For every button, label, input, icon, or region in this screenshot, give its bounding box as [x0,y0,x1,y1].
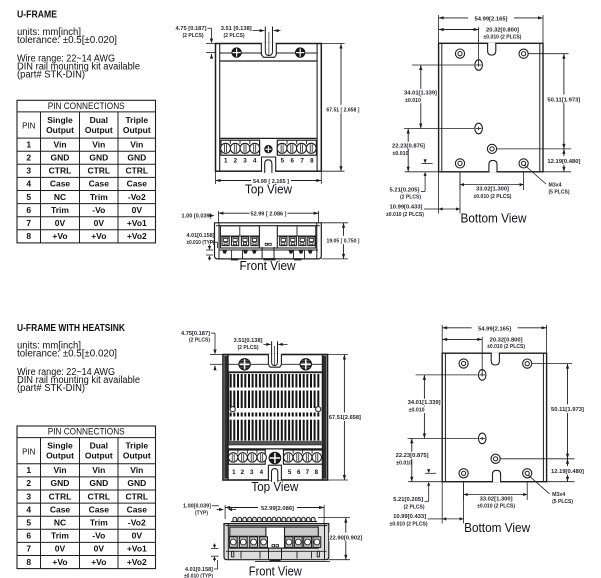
svg-text:3: 3 [250,469,254,476]
svg-text:8: 8 [310,157,314,164]
front view A terminal top strip [220,235,259,237]
svg-text:2: 2 [234,157,238,164]
top view B left rail [224,356,227,479]
bottom view slot hole lower [478,433,486,444]
bottom view mounting hole center [491,454,500,463]
dim 20.32 bottom view [478,27,480,65]
table data rows [17,150,156,152]
top view A right rail [316,44,318,172]
top view B terminal screws 1-4 [229,453,238,462]
svg-text:CTRL: CTRL [125,491,148,501]
svg-text:±0.010 (2 PLCS): ±0.010 (2 PLCS) [386,212,424,218]
svg-text:5: 5 [26,192,31,202]
bottom view mounting hole top-right [519,49,528,58]
top view B flange line [228,363,268,365]
svg-text:6: 6 [26,531,31,541]
dim 5.21 bottom view [425,472,436,474]
dim 10.99 bottom view [438,172,440,214]
bottom view inner edge lines [444,353,446,482]
front view B terminal strip lines [230,535,266,537]
svg-text:±0.010: ±0.010 [405,98,421,104]
svg-text:22.90[0.902]: 22.90[0.902] [329,535,362,541]
top view A flange line [220,52,263,54]
M3x4 callout [528,475,550,494]
svg-text:CTRL: CTRL [125,166,148,176]
svg-text:Output: Output [123,451,151,461]
svg-text:4: 4 [253,157,257,164]
svg-text:CTRL: CTRL [49,491,72,501]
svg-text:Dual: Dual [90,115,108,125]
top view A terminal screws 5-8 [277,143,287,153]
svg-text:Single: Single [47,115,73,125]
svg-text:2: 2 [26,153,31,163]
svg-text:±0.010 (TYP): ±0.010 (TYP) [187,240,215,246]
top view A screw left [232,48,242,58]
svg-text:Trim: Trim [51,205,69,215]
svg-text:(part# STK-DIN): (part# STK-DIN) [17,383,85,394]
dim 22.23 bottom view [405,171,439,173]
svg-text:0V: 0V [132,205,143,215]
svg-text:±0.010 (2 PLCS): ±0.010 (2 PLCS) [487,344,525,350]
svg-text:54.99[2.165]: 54.99[2.165] [475,16,508,22]
svg-text:12.19[0.480]: 12.19[0.480] [551,469,584,475]
top view B top strip line [228,371,323,373]
front view B center gap [266,528,284,548]
svg-text:(part# STK-DIN): (part# STK-DIN) [17,70,85,81]
top view B heatsink fins [230,374,232,388]
svg-text:+Vo: +Vo [52,231,67,241]
svg-text:20.32[0.800]: 20.32[0.800] [486,28,519,34]
bottom view bottom notch [490,170,497,172]
svg-text:4.01[0.158]: 4.01[0.158] [187,233,215,239]
svg-text:NC: NC [54,192,66,202]
svg-text:5.21[0.205]: 5.21[0.205] [390,187,420,193]
svg-text:Trim: Trim [51,531,69,541]
front view A terminal housing [220,226,315,248]
dim 22.23 bottom view [408,481,442,483]
svg-text:10.99[0.433]: 10.99[0.433] [393,514,426,520]
svg-text:(2 PLCS): (2 PLCS) [400,195,421,201]
top view A terminal block right [277,140,316,155]
svg-text:GND: GND [51,153,70,163]
bottom view bottom notch [493,480,500,482]
svg-text:Vin: Vin [53,139,66,149]
svg-text:U-FRAME: U-FRAME [17,9,57,21]
top view A screw right [295,48,305,58]
svg-text:4: 4 [26,504,31,514]
svg-text:7: 7 [300,157,304,164]
svg-text:5: 5 [288,469,292,476]
svg-text:PIN: PIN [22,447,36,456]
svg-text:2: 2 [241,469,245,476]
bottom view mounting hole top-right [523,359,532,368]
svg-text:0V: 0V [55,544,66,554]
top view A terminal screws 1-4 [221,143,231,153]
svg-text:4: 4 [26,179,31,189]
top view B top DIN notch [269,354,281,368]
front view B heatsink base plate line [231,521,317,523]
front view B side pins [232,551,234,557]
front view B heatsink fins wave [233,517,237,521]
front view A lower dividers [231,250,233,259]
svg-text:8: 8 [315,469,319,476]
front view A side rails [218,223,220,259]
svg-text:Top View: Top View [251,480,299,494]
bottom view mounting hole bottom-right [519,159,528,168]
svg-text:54.99[2.165]: 54.99[2.165] [478,326,511,332]
svg-text:M3x4: M3x4 [549,182,563,188]
svg-text:(2 PLCS): (2 PLCS) [238,345,259,351]
svg-text:-Vo2: -Vo2 [128,192,146,202]
svg-text:20.32[0.800]: 20.32[0.800] [490,337,523,343]
pin connections table frame [17,426,156,569]
svg-text:6: 6 [297,469,301,476]
top view B terminal screws 5-8 [284,453,293,462]
svg-text:3.51 [0.138]: 3.51 [0.138] [221,26,252,32]
svg-text:Case: Case [89,504,110,514]
svg-text:6: 6 [26,205,31,215]
svg-text:GND: GND [89,153,108,163]
dim 52.99 front view B [224,505,226,519]
front view A terminal screws [222,237,229,246]
svg-text:67.51[2.658]: 67.51[2.658] [329,415,361,421]
svg-text:Case: Case [50,504,71,514]
table header PIN CONNECTIONS [17,437,156,439]
top view A terminal block left [221,140,260,155]
svg-text:67.51 [ 2.658 ]: 67.51 [ 2.658 ] [326,108,359,114]
table header PIN CONNECTIONS [17,111,156,113]
svg-text:Output: Output [46,125,74,135]
svg-text:0V: 0V [55,218,66,228]
svg-text:-Vo: -Vo [92,205,105,215]
front view B body [224,524,329,560]
svg-text:12.19[0.480]: 12.19[0.480] [547,159,580,165]
svg-text:GND: GND [127,478,146,488]
dim 19.05 front view A [321,222,348,224]
svg-text:34.01[1.339]: 34.01[1.339] [408,400,441,406]
svg-text:Dual: Dual [90,441,108,451]
svg-text:±0.010: ±0.010 [409,408,425,414]
svg-text:7: 7 [306,469,310,476]
svg-text:(2 PLCS): (2 PLCS) [183,33,204,39]
svg-text:33.02[1.300]: 33.02[1.300] [480,497,513,503]
svg-text:±0.010 (2 PLCS): ±0.010 (2 PLCS) [390,522,428,528]
svg-text:Case: Case [89,179,110,189]
svg-text:0V: 0V [94,544,105,554]
svg-text:3: 3 [243,157,247,164]
svg-text:±0.010: ±0.010 [396,461,412,467]
svg-text:±0.010 (2 PLCS): ±0.010 (2 PLCS) [484,34,522,40]
svg-text:34.01[1.339]: 34.01[1.339] [404,90,437,96]
svg-text:7: 7 [26,218,31,228]
top view B side holes [230,407,235,412]
svg-text:7: 7 [26,544,31,554]
svg-text:1.00 [0.039]: 1.00 [0.039] [182,214,212,220]
bottom view mounting hole top-left [459,359,468,368]
top view B bottom DIN notch [269,466,281,481]
bottom view slot hole upper [478,370,486,381]
svg-text:Case: Case [127,504,148,514]
svg-text:52.99 [ 2.086 ]: 52.99 [ 2.086 ] [251,212,287,218]
svg-text:4.75 [0.187]: 4.75 [0.187] [176,26,207,32]
svg-text:CTRL: CTRL [87,166,110,176]
svg-text:Vin: Vin [92,139,105,149]
svg-text:8: 8 [26,231,31,241]
svg-text:(2 PLCS): (2 PLCS) [189,338,210,344]
svg-text:3: 3 [26,491,31,501]
svg-text:10.99[0.433]: 10.99[0.433] [390,204,423,210]
svg-text:+Vo2: +Vo2 [127,231,147,241]
svg-text:+Vo1: +Vo1 [127,544,147,554]
front view A lower band [220,247,315,249]
bottom view mounting hole bottom-right [523,469,532,478]
svg-text:±0.010 (2 PLCS): ±0.010 (2 PLCS) [477,504,515,510]
front view B center oo detail [272,545,275,547]
svg-text:33.02[1.300]: 33.02[1.300] [476,187,509,193]
svg-text:Case: Case [127,179,148,189]
svg-text:(2 PLCS): (2 PLCS) [224,33,245,39]
front view A center gap [260,226,277,247]
svg-text:1: 1 [224,157,228,164]
svg-text:Front View: Front View [249,565,303,578]
top view B terminal block left [229,450,266,464]
dim 52.99 front view A [217,211,219,223]
front view B terminal screws [229,537,237,548]
svg-text:U-FRAME WITH HEATSINK: U-FRAME WITH HEATSINK [17,322,125,334]
dim 22.90 front view B [318,517,350,519]
bottom view inner edge lines [441,43,443,172]
front view A feet pads [231,258,239,260]
svg-text:-Vo: -Vo [92,531,105,541]
svg-text:Trim: Trim [90,518,108,528]
svg-text:19.05 [ 0.750 ]: 19.05 [ 0.750 ] [327,239,360,245]
svg-text:Vin: Vin [92,465,105,475]
dim 54.99 top view A [215,171,217,184]
svg-text:6: 6 [290,157,294,164]
svg-text:±0.010: ±0.010 [393,151,409,157]
svg-text:2: 2 [26,478,31,488]
svg-text:(5 PLCS): (5 PLCS) [552,499,573,505]
svg-text:(TYP): (TYP) [195,510,208,516]
top view B center screw [269,452,281,464]
top view B heatsink body [229,373,323,445]
front view B bottom line [255,560,330,562]
svg-text:4: 4 [260,469,264,476]
svg-text:+Vo1: +Vo1 [127,218,147,228]
svg-text:PIN CONNECTIONS: PIN CONNECTIONS [48,101,125,112]
dim 20.32 bottom view [481,337,483,375]
svg-text:NC: NC [54,518,66,528]
svg-text:Output: Output [85,125,113,135]
table data rows [17,476,156,478]
svg-text:Output: Output [123,125,151,135]
svg-text:Bottom View: Bottom View [461,211,528,225]
bottom view slot hole upper [475,60,483,71]
svg-text:Output: Output [46,451,74,461]
svg-text:Vin: Vin [130,465,143,475]
svg-text:8: 8 [26,557,31,567]
front view B lower band [230,547,318,549]
top view B terminal area line [228,448,323,450]
svg-text:Triple: Triple [125,441,148,451]
svg-text:5: 5 [26,518,31,528]
bottom view outline [442,353,546,482]
top view B heatsink bottom plate [229,441,323,445]
dim 12.19 bottom view [547,481,575,483]
bottom view outline [439,43,543,172]
svg-text:GND: GND [51,478,70,488]
svg-text:1: 1 [26,465,31,475]
front view A V tabs [222,250,227,254]
svg-text:+Vo: +Vo [91,557,106,567]
bottom view slot hole lower [475,123,483,134]
svg-text:5: 5 [281,157,285,164]
svg-text:PIN: PIN [22,122,36,131]
svg-text:tolerance: ±0.5[±0.020]: tolerance: ±0.5[±0.020] [17,35,117,46]
svg-text:M3x4: M3x4 [552,492,566,498]
table column header row [17,463,156,465]
dim 10.99 bottom view [441,482,443,524]
svg-text:0V: 0V [94,218,105,228]
top view A top strip bottom line [220,60,317,62]
dim 5.21 bottom view [422,162,433,164]
svg-text:22.23[0.875]: 22.23[0.875] [396,453,429,459]
svg-text:Bottom View: Bottom View [464,521,531,535]
top view B outline [223,355,328,481]
front view B center foot [268,548,270,559]
svg-text:Top View: Top View [245,183,293,197]
front view A center foot [261,247,263,258]
svg-text:50.11[1.973]: 50.11[1.973] [551,407,584,413]
top view A center screw [265,145,273,153]
table column header row [17,137,156,139]
svg-text:22.23[0.875]: 22.23[0.875] [392,143,425,149]
top view A outline [216,44,322,172]
bottom view top notch [492,353,499,355]
top view A left rail [219,44,221,172]
dim 33.02 bottom view [463,482,465,500]
svg-text:4.75[0.187]: 4.75[0.187] [181,331,210,337]
dim 54.99 bottom view [438,15,440,43]
bottom view mounting hole center [487,144,496,153]
svg-text:CTRL: CTRL [87,491,110,501]
svg-text:Trim: Trim [90,192,108,202]
svg-text:Case: Case [50,179,71,189]
svg-text:CTRL: CTRL [49,166,72,176]
svg-text:1.00[0.039]: 1.00[0.039] [183,504,211,510]
bottom view top notch [488,43,495,45]
front view A outline [215,223,322,259]
svg-text:Triple: Triple [125,115,148,125]
dim 67.51 top view B [328,354,349,356]
svg-text:1: 1 [26,139,31,149]
front view B side rails [227,524,229,560]
top view B terminal block right [284,450,323,464]
bottom view mounting hole bottom-left [459,469,468,478]
svg-text:3.51[0.138]: 3.51[0.138] [234,338,263,344]
dim 54.99 bottom view [441,325,443,353]
svg-text:GND: GND [127,153,146,163]
pin connections table frame [17,100,156,243]
front view A inner top line [216,225,320,227]
front view A center oo detail [265,243,267,245]
svg-text:+Vo: +Vo [52,557,67,567]
dim 34.01 bottom view [412,64,474,66]
bottom view mounting hole bottom-left [455,159,464,168]
svg-text:Vin: Vin [53,465,66,475]
top view A terminal area line [220,137,317,139]
svg-text:±0.010 (2 PLCS): ±0.010 (2 PLCS) [474,194,512,200]
svg-text:tolerance: ±0.5[±0.020]: tolerance: ±0.5[±0.020] [17,348,117,359]
svg-text:+Vo2: +Vo2 [127,557,147,567]
top view B screw right [300,359,312,371]
front view B terminal housing [230,527,318,548]
svg-text:Vin: Vin [130,139,143,149]
svg-text:±0.010 (TYP): ±0.010 (TYP) [184,574,213,578]
svg-text:52.99[2.086]: 52.99[2.086] [261,506,294,512]
svg-text:Single: Single [47,441,73,451]
svg-text:5.21[0.205]: 5.21[0.205] [393,497,423,503]
top view A bottom DIN notch [262,158,275,173]
svg-text:0V: 0V [132,531,143,541]
svg-text:(5 PLCS): (5 PLCS) [549,189,570,195]
svg-text:-Vo2: -Vo2 [128,518,146,528]
dim 67.51 top view A [321,43,344,45]
front view B inner top line [226,525,328,527]
svg-text:3: 3 [26,166,31,176]
dim 12.19 bottom view [543,171,571,173]
bottom view mounting hole top-left [455,49,464,58]
dim 34.01 bottom view [416,374,478,376]
svg-text:50.11[1.973]: 50.11[1.973] [547,97,580,103]
svg-text:GND: GND [89,478,108,488]
svg-text:+Vo: +Vo [91,231,106,241]
svg-text:Front View: Front View [240,259,297,273]
svg-text:Output: Output [85,451,113,461]
svg-text:1: 1 [232,469,236,476]
dim 33.02 bottom view [459,172,461,190]
svg-text:(2 PLCS): (2 PLCS) [404,504,425,510]
svg-text:PIN CONNECTIONS: PIN CONNECTIONS [48,427,125,438]
M3x4 callout [525,165,547,184]
svg-text:4.01[0.158]: 4.01[0.158] [185,567,213,573]
top view B right rail [323,356,326,479]
top view B screw left [239,359,251,371]
top view A top DIN notch [262,43,276,58]
front view B feet [240,551,242,558]
dim 50.11 bottom view [529,53,569,55]
dim 50.11 bottom view [532,363,572,365]
